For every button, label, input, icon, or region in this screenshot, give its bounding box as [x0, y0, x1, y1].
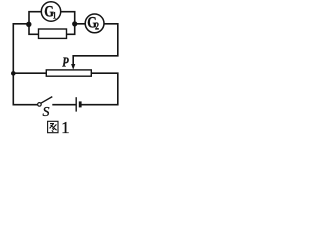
- svg-text:1: 1: [53, 11, 57, 21]
- svg-text:P: P: [62, 54, 69, 70]
- svg-text:S: S: [43, 105, 50, 120]
- svg-text:2: 2: [95, 21, 99, 32]
- svg-text:1: 1: [61, 118, 70, 137]
